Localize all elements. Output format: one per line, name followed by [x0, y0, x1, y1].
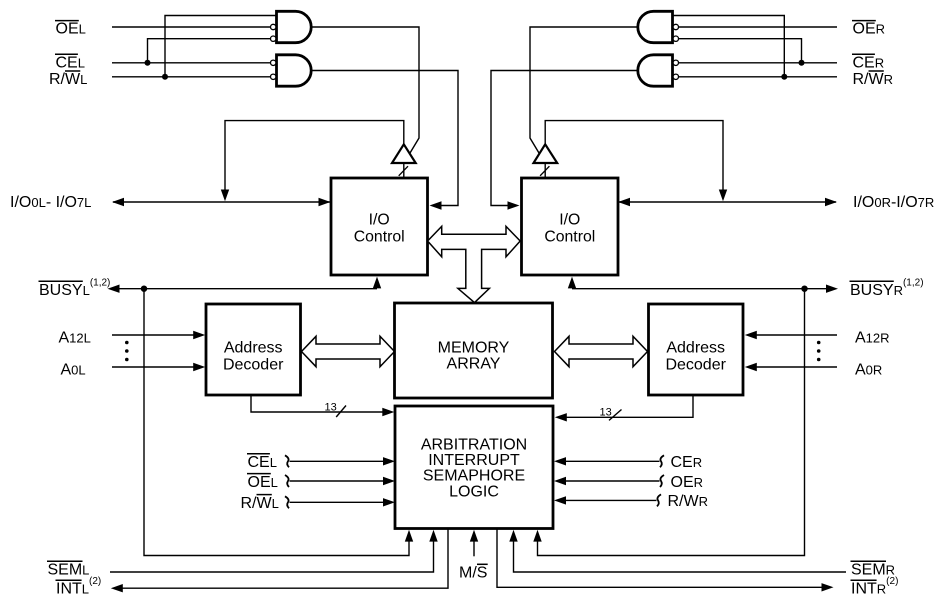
gate L1 bubble bottom	[271, 36, 276, 41]
MEMORY ARRAY box	[395, 303, 553, 398]
squiggle R/WL	[285, 496, 289, 508]
svg-text:OEL: OEL	[248, 474, 278, 491]
wire A12R	[745, 331, 837, 339]
I/O Control box R	[522, 178, 619, 275]
wire 13-bus R	[555, 395, 693, 422]
label M/S	[459, 564, 488, 581]
wire gate R2 output to I/O control R	[491, 71, 638, 210]
wire M/S to arbitration	[470, 530, 478, 557]
Address Decoder box L	[206, 304, 301, 395]
wire CEL to gate L1	[148, 39, 271, 63]
wire gate L1 output to buffer L	[311, 27, 419, 156]
wire BUSYL	[108, 277, 382, 293]
gate L2 bubble bottom	[271, 74, 276, 79]
svg-text:Decoder: Decoder	[223, 356, 284, 373]
I/O bus line R	[618, 198, 837, 206]
wire buffer L feedback to I/O bus	[221, 121, 404, 202]
node CEL junction	[145, 60, 151, 66]
label 13 L	[325, 402, 347, 418]
wire gate R1 output to buffer R	[530, 27, 638, 156]
gate R2 bubble top	[673, 60, 678, 65]
AND gate R2	[638, 55, 673, 86]
gate L1 bubble top	[271, 24, 276, 29]
gate R1 bubble bottom	[673, 36, 678, 41]
wire SEML to arbitration	[110, 530, 438, 572]
svg-text:R/WL: R/WL	[241, 495, 279, 512]
svg-text:SEML: SEML	[48, 562, 90, 579]
wire buffer R feedback to I/O bus	[545, 121, 727, 202]
svg-text:LOGIC: LOGIC	[449, 483, 499, 500]
label OEL	[55, 21, 86, 38]
svg-text:I/O: I/O	[369, 212, 390, 229]
label BUSYL	[39, 278, 111, 300]
wire SEMR to arbitration	[509, 530, 846, 572]
label CEL	[55, 54, 85, 71]
I/O bus line L	[112, 198, 331, 206]
squiggle CEL	[285, 455, 289, 467]
wire CER to gate R1	[679, 39, 802, 63]
wire R/WL	[112, 76, 270, 78]
svg-text:13: 13	[600, 407, 612, 419]
ARBITRATION box	[395, 406, 553, 529]
AND gate L2	[277, 55, 312, 86]
wire R/WL to gate L1	[165, 16, 277, 77]
wire R/WR to arbitration	[554, 496, 657, 504]
ellipsis dots left	[125, 341, 129, 362]
wire BUSYR feedback to arbitration	[533, 289, 804, 556]
node R/WR junction	[781, 74, 787, 80]
AND gate R1	[638, 11, 673, 42]
svg-text:Address: Address	[224, 339, 283, 356]
wire R/WL to arbitration	[290, 498, 396, 506]
svg-text:INTL(2): INTL(2)	[56, 576, 101, 598]
wire OER	[679, 26, 838, 28]
svg-text:Control: Control	[354, 229, 405, 246]
svg-text:CEL: CEL	[56, 54, 85, 71]
wire INTR from arbitration	[497, 529, 834, 592]
svg-text:OER: OER	[671, 474, 704, 491]
svg-text:MEMORY: MEMORY	[438, 340, 510, 357]
bus slash buffer L	[399, 166, 408, 176]
Address Decoder box R	[649, 304, 744, 395]
wire CEL to arbitration	[290, 457, 396, 465]
svg-text:ARRAY: ARRAY	[447, 356, 501, 373]
wire INTL from arbitration	[111, 529, 448, 593]
svg-text:OEL: OEL	[56, 21, 86, 38]
svg-text:I/O: I/O	[559, 212, 580, 229]
tri-state buffer R	[534, 144, 558, 163]
svg-text:Control: Control	[544, 229, 595, 246]
svg-text:SEMAPHORE: SEMAPHORE	[423, 468, 525, 485]
svg-text:A0R: A0R	[855, 362, 882, 379]
wire CEL	[112, 62, 270, 64]
label SEML	[47, 561, 89, 578]
wire A0L	[112, 363, 205, 371]
svg-text:I/O0R-I/O7R: I/O0R-I/O7R	[853, 194, 934, 211]
label 13 R	[600, 407, 622, 421]
hollow arrow I/O controls and memory	[428, 226, 521, 302]
svg-text:13: 13	[325, 402, 337, 414]
squiggle CER	[660, 455, 664, 467]
svg-text:Decoder: Decoder	[665, 356, 726, 373]
label INTL	[56, 576, 102, 598]
node BUSYR junction	[801, 286, 807, 292]
wire OER to arbitration	[554, 477, 660, 485]
label R/WL arbitration	[241, 495, 279, 512]
node CER junction	[799, 60, 805, 66]
label BUSYR	[850, 278, 924, 300]
svg-text:R/WR: R/WR	[853, 71, 894, 88]
I/O Control box L	[331, 178, 428, 275]
svg-text:INTERRUPT: INTERRUPT	[428, 452, 520, 469]
wire CER to arbitration	[554, 457, 660, 465]
label SEMR	[851, 561, 896, 578]
svg-text:A12L: A12L	[59, 330, 91, 347]
bus slash buffer R	[540, 166, 549, 176]
svg-text:Address: Address	[666, 339, 725, 356]
wire BUSYL feedback to arbitration	[144, 289, 413, 556]
svg-text:R/WR: R/WR	[668, 493, 709, 510]
tri-state buffer L	[392, 144, 416, 163]
svg-text:OER: OER	[853, 21, 886, 38]
label OEL arbitration	[247, 474, 278, 491]
wire buffer R to box	[544, 163, 546, 178]
svg-text:CER: CER	[853, 54, 885, 71]
node BUSYL junction	[141, 286, 147, 292]
svg-text:CEL: CEL	[248, 454, 277, 471]
squiggle R/WR	[657, 494, 661, 506]
wire CER	[679, 62, 838, 64]
svg-text:R/WL: R/WL	[49, 71, 87, 88]
svg-text:A0L: A0L	[61, 362, 86, 379]
label CER	[852, 54, 884, 71]
wire A12L	[112, 331, 205, 339]
wire R/WR to gate R1	[673, 16, 785, 77]
wire 13-bus L	[251, 395, 394, 416]
gate R2 bubble bottom	[673, 74, 678, 79]
hollow arrow decoder R to memory	[555, 336, 648, 366]
svg-text:ARBITRATION: ARBITRATION	[421, 436, 527, 453]
wire gate L2 output to I/O control L	[311, 71, 458, 210]
wire BUSYR	[568, 277, 838, 293]
wire OEL to arbitration	[290, 477, 396, 485]
svg-text:M/S: M/S	[459, 565, 487, 582]
wire OEL	[112, 26, 270, 28]
wire A0R	[745, 363, 837, 371]
gate R1 bubble top	[673, 24, 678, 29]
svg-text:INTR(2): INTR(2)	[851, 576, 898, 598]
label OER	[852, 21, 885, 38]
wire R/WR	[679, 76, 838, 78]
label R/WR	[853, 71, 894, 88]
svg-text:CER: CER	[671, 454, 703, 471]
ellipsis dots right	[817, 341, 821, 362]
squiggle OEL	[285, 475, 289, 487]
AND gate L1	[277, 11, 312, 42]
node R/WL junction	[162, 74, 168, 80]
wire buffer L to box	[403, 163, 405, 178]
squiggle OER	[660, 475, 664, 487]
label R/WL	[49, 71, 87, 88]
gate L2 bubble top	[271, 60, 276, 65]
hollow arrow decoder L to memory	[302, 336, 395, 366]
label INTR	[851, 576, 899, 598]
label CEL arbitration	[247, 454, 277, 471]
svg-text:I/O0L- I/O7L: I/O0L- I/O7L	[10, 194, 91, 211]
svg-text:A12R: A12R	[855, 330, 890, 347]
